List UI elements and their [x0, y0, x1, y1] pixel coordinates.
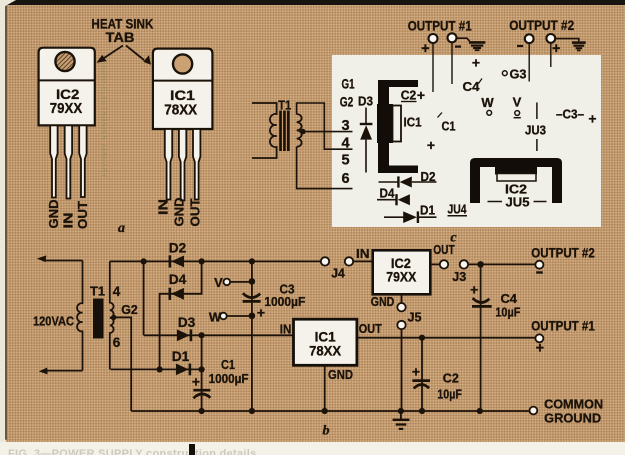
trace from OUTPUT #2 - into board	[528, 43, 530, 82]
wire center tap to pad 3	[303, 131, 353, 133]
jumper JU4 (fig c)	[448, 202, 468, 217]
svg-text:GND: GND	[173, 198, 187, 227]
jumper J4	[321, 257, 353, 280]
IC1 pin 1 (IN) lead	[165, 129, 172, 200]
svg-text:+: +	[470, 282, 478, 298]
diode D1	[172, 349, 190, 375]
T1 center-tap dot	[300, 129, 306, 135]
svg-text:G1: G1	[342, 77, 355, 92]
capacitor C2	[412, 364, 462, 402]
svg-text:+: +	[536, 341, 544, 357]
PCB layout panel background	[332, 55, 601, 227]
svg-text:D1: D1	[420, 203, 435, 218]
svg-text:GROUND: GROUND	[544, 411, 601, 426]
svg-text:D4: D4	[380, 186, 396, 201]
svg-text:C1: C1	[442, 119, 456, 134]
svg-text:G2: G2	[121, 302, 138, 317]
svg-text:4: 4	[341, 136, 349, 152]
capacitor C1	[192, 357, 249, 398]
rail junction dot earth	[398, 408, 404, 414]
svg-text:5: 5	[341, 153, 349, 169]
svg-text:T1: T1	[90, 284, 105, 299]
svg-text:120VAC: 120VAC	[33, 314, 75, 329]
OUTPUT #1 + terminal	[421, 34, 437, 57]
svg-text:–C3–: –C3–	[556, 107, 584, 122]
svg-text:W: W	[481, 95, 494, 110]
svg-text:3: 3	[341, 118, 349, 134]
svg-text:C4: C4	[463, 79, 481, 94]
IC1 heat sink bracket (fig c)	[378, 80, 418, 173]
svg-text:V: V	[214, 275, 223, 290]
junction dot D4 drop/D1 row	[157, 366, 163, 372]
capacitor C1 label (fig c)	[427, 113, 456, 154]
svg-text:10µF: 10µF	[495, 305, 520, 320]
jumper J5	[397, 303, 421, 329]
C2 column vertical	[421, 338, 423, 411]
rail junction dot C1	[199, 408, 205, 414]
wire IC2 out	[430, 263, 440, 265]
top positive rail	[110, 260, 321, 262]
svg-text:+: +	[427, 137, 435, 153]
rail junction dot IC1 gnd	[322, 408, 328, 414]
arrow to IC2 heat-sink tab	[97, 46, 124, 63]
svg-text:D2: D2	[169, 241, 187, 256]
arrow to IC1 heat-sink tab	[126, 46, 151, 65]
OUTPUT #2 - terminal	[517, 34, 534, 46]
D1 row wire	[111, 368, 202, 370]
svg-text:+: +	[552, 41, 560, 57]
svg-text:V: V	[513, 95, 522, 110]
wire secondary top to pad 4	[297, 103, 353, 149]
OUTPUT #2 terminal	[531, 246, 595, 273]
T1 secondary winding (fig b)	[110, 261, 114, 369]
rail junction dot C2	[419, 408, 425, 414]
terminal V	[214, 275, 252, 290]
jumper JU3 (fig c)	[525, 103, 546, 152]
svg-text:79XX: 79XX	[50, 100, 82, 117]
svg-text:C1: C1	[221, 357, 235, 372]
junction dot D1/C1 column	[199, 366, 205, 372]
svg-text:IN: IN	[157, 199, 171, 215]
svg-text:+: +	[192, 374, 200, 390]
svg-text:GND: GND	[371, 294, 395, 309]
svg-text:78XX: 78XX	[164, 102, 197, 119]
svg-text:JU3: JU3	[525, 123, 546, 138]
junction dot V row	[249, 278, 256, 285]
junction dot rail/D3 feed	[141, 258, 147, 264]
AC line bottom lead with arrow	[39, 368, 83, 375]
pad V (fig c)	[513, 95, 522, 118]
wire J5 to ground rail	[401, 329, 403, 411]
IC2 heat sink bracket (fig c)	[470, 158, 562, 203]
left page-edge white strip	[0, 0, 6, 455]
IC2 pin 2 (IN) lead	[65, 125, 72, 198]
OUTPUT #1 terminal	[531, 319, 595, 357]
svg-text:JU5: JU5	[506, 195, 530, 210]
T1 core	[279, 111, 290, 152]
junction dot C2 top	[419, 335, 425, 341]
top-left page corner wedge	[0, 0, 16, 9]
ground rail	[131, 410, 529, 412]
C1 column vertical	[201, 335, 203, 411]
IC2 label text	[50, 86, 82, 117]
C3 column vertical	[251, 261, 253, 411]
OUTPUT #1 ground symbol	[457, 38, 486, 50]
IC2 mounting hole	[55, 52, 74, 71]
capacitor C3	[243, 282, 306, 321]
IC2 package outline (79XX)	[39, 48, 95, 126]
svg-text:C2: C2	[443, 371, 459, 386]
faint cropped caption text FIG. 3	[8, 448, 428, 455]
jumper J3	[440, 260, 468, 284]
diode D2	[169, 241, 187, 268]
OUTPUT #1 - terminal	[448, 33, 462, 46]
T1 secondary winding	[297, 114, 302, 147]
IC1 pin 2 (GND) lead	[179, 129, 186, 201]
diode D3 (fig c)	[358, 94, 373, 173]
svg-text:a: a	[118, 221, 125, 236]
svg-text:IN: IN	[280, 322, 292, 337]
svg-text:OUTPUT #1: OUTPUT #1	[531, 319, 595, 334]
OUTPUT #2 + terminal	[546, 34, 560, 57]
svg-text:6: 6	[341, 171, 349, 187]
capacitor C2 label (fig c)	[401, 87, 425, 103]
pad G3	[502, 67, 526, 82]
svg-text:1000µF: 1000µF	[264, 294, 305, 309]
left page-edge dark crease	[5, 4, 7, 440]
vertical feed rail to D3	[143, 261, 145, 335]
svg-text:78XX: 78XX	[309, 343, 342, 359]
svg-text:b: b	[323, 424, 330, 439]
svg-text:D3: D3	[358, 94, 373, 109]
T1 primary winding (fig b)	[77, 261, 82, 371]
faint vertical page bleed-through text	[94, 60, 106, 240]
svg-text:G2: G2	[340, 95, 354, 110]
IC1 package outline (78XX)	[153, 49, 213, 129]
svg-text:OUTPUT #2: OUTPUT #2	[531, 246, 595, 261]
svg-text:OUT: OUT	[359, 321, 382, 336]
trace from OUTPUT #2 + into board	[550, 43, 552, 67]
svg-text:IN: IN	[62, 213, 76, 229]
rail junction dot C4	[477, 408, 483, 414]
svg-text:G3: G3	[510, 67, 527, 82]
IC1 body black (fig c)	[377, 104, 393, 143]
C4 column vertical	[480, 264, 482, 411]
svg-text:D3: D3	[178, 315, 196, 330]
svg-text:10µF: 10µF	[437, 386, 462, 401]
svg-text:JU4: JU4	[448, 202, 468, 217]
svg-text:D2: D2	[421, 169, 436, 184]
wire J4 to IC2	[353, 260, 373, 262]
OUTPUT #2 ground symbol	[555, 39, 586, 51]
svg-text:6: 6	[113, 335, 121, 350]
IC1 label text	[164, 87, 197, 119]
IC1 box	[294, 319, 357, 365]
diode D3	[177, 315, 196, 341]
pad W (fig c)	[481, 95, 494, 115]
IC2 body white face (fig c)	[497, 174, 536, 182]
svg-text:OUTPUT #1: OUTPUT #1	[408, 19, 472, 34]
capacitor C4	[470, 282, 520, 320]
svg-text:4: 4	[113, 284, 121, 299]
svg-text:+: +	[412, 364, 420, 380]
earth ground symbol	[393, 411, 410, 429]
svg-text:79XX: 79XX	[386, 269, 417, 285]
bottom caption strip	[0, 442, 625, 455]
svg-text:+: +	[417, 87, 425, 103]
IC1 OUT row wire	[357, 337, 536, 339]
diode D2 (fig c)	[379, 169, 437, 188]
svg-text:J4: J4	[331, 266, 345, 281]
capacitor C3 label (fig c)	[556, 107, 597, 127]
svg-text:J3: J3	[452, 269, 466, 284]
svg-text:OUTPUT #2: OUTPUT #2	[509, 18, 574, 33]
svg-text:J5: J5	[408, 310, 422, 325]
IC1 gnd wire	[324, 365, 326, 411]
junction dot rail/C3 column	[249, 258, 255, 264]
svg-text:GND: GND	[328, 367, 353, 382]
IC2 body black (fig c)	[495, 167, 537, 175]
rail junction dot C3	[249, 408, 255, 414]
jumper JU5 (fig c)	[488, 195, 547, 210]
diode D4	[169, 272, 187, 300]
svg-text:GND: GND	[47, 200, 61, 229]
svg-text:OUT: OUT	[433, 242, 455, 257]
svg-text:+: +	[588, 111, 596, 127]
svg-text:COMMON: COMMON	[544, 397, 603, 412]
wire secondary bottom to pad 6	[297, 147, 353, 189]
junction dot D3/C1 column	[199, 332, 205, 338]
wire rail down to D4 and over to D1 row	[160, 261, 202, 369]
svg-text:+: +	[421, 41, 429, 57]
svg-text:IC1: IC1	[404, 115, 422, 130]
junction dot rail/D4 drop	[199, 258, 205, 264]
T1 primary winding	[252, 103, 277, 158]
diode D1 (fig c)	[384, 203, 437, 224]
label HEAT SINK TAB	[91, 17, 153, 46]
wire center tap G2 to ground rail	[114, 317, 131, 411]
junction dot W row	[249, 313, 256, 320]
T1 core (fig b)	[93, 299, 104, 339]
center tap dot	[111, 315, 116, 320]
junction dot C4 top	[477, 261, 484, 268]
svg-text:OUT: OUT	[189, 198, 203, 226]
wire IC2 gnd to J5	[401, 294, 403, 303]
COMMON GROUND terminal	[530, 397, 604, 426]
IC1 mounting hole	[173, 54, 192, 73]
wire J3 to OUTPUT 2	[468, 263, 535, 265]
D3 row wire to IC1 IN	[144, 334, 294, 336]
IC1 body white face (fig c)	[393, 106, 402, 142]
svg-text:D4: D4	[169, 272, 187, 287]
svg-text:C2: C2	[401, 88, 417, 103]
IC2 pin 3 (OUT) lead	[79, 125, 86, 197]
trace from OUTPUT #1 - into board	[451, 42, 453, 84]
capacitor C4 outline label (fig c)	[463, 55, 483, 95]
AC line top lead with arrow	[37, 255, 83, 262]
diode D4 (fig c)	[377, 186, 410, 206]
IC2 box	[373, 250, 431, 294]
svg-text:IN: IN	[356, 246, 370, 261]
svg-text:TAB: TAB	[106, 30, 135, 45]
IC1 pin 3 (OUT) lead	[193, 129, 200, 200]
black caption tick	[189, 444, 195, 455]
svg-text:OUT: OUT	[76, 201, 90, 229]
svg-text:1000µF: 1000µF	[209, 371, 249, 386]
top page-edge black bar	[7, 0, 625, 5]
terminal W	[209, 310, 252, 325]
svg-text:+: +	[472, 55, 480, 71]
trace from OUTPUT #1 + into board	[432, 43, 434, 92]
svg-text:D1: D1	[172, 349, 190, 364]
svg-text:T1: T1	[278, 98, 291, 113]
IC2 pin 1 (GND) lead	[50, 125, 57, 197]
